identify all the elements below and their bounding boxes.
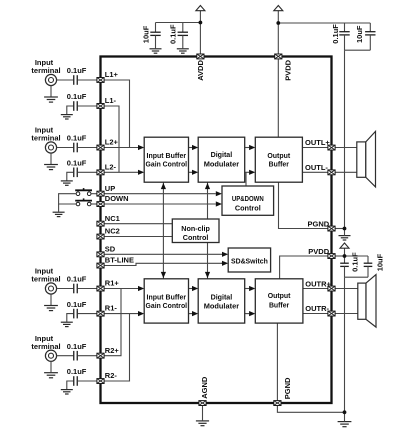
switch DOWN pushbutton (75, 198, 92, 205)
wire NC1 to Non-clip Control (104, 223, 172, 225)
svg-text:Control: Control (235, 203, 261, 212)
wire DOWN to UP&DOWN Control (104, 201, 222, 206)
block SD&Switch (228, 248, 270, 272)
wire L2- to Input Buffer (104, 170, 144, 175)
wire PVDD supply drop (277, 11, 279, 23)
svg-text:0.1uF: 0.1uF (169, 24, 178, 44)
wire cap to R1+ pin (78, 288, 98, 290)
svg-text:0.1uF: 0.1uF (67, 134, 87, 143)
block Input Buffer Gain Control (left ch) (144, 137, 188, 182)
svg-text:10uF: 10uF (375, 253, 384, 271)
svg-text:AVDD: AVDD (196, 60, 205, 81)
ground for L2- cap (61, 181, 73, 185)
pin BT-LINE (97, 263, 104, 268)
wire cap to L2- pin (78, 171, 98, 173)
ground for R1- cap (61, 322, 73, 326)
svg-text:Gain Control: Gain Control (146, 301, 188, 310)
svg-text:PVDD: PVDD (283, 59, 292, 80)
junction dot PVDD right (343, 254, 347, 258)
wire terminal L1 ground stub (50, 86, 52, 97)
junction dot bottom ground (343, 410, 347, 414)
wire UP to UP&DOWN Control (104, 191, 222, 196)
block Output Buffer (left ch) (255, 137, 302, 182)
block Input Buffer Gain Control (right ch) (144, 279, 188, 323)
pin PVDD right (328, 254, 335, 259)
svg-text:terminal: terminal (31, 134, 60, 143)
pin L1+ (97, 78, 104, 83)
wire R Input Buffer to Digital Modulater (-) (188, 311, 198, 316)
svg-text:10uF: 10uF (355, 25, 364, 43)
ground below input terminal R1 (44, 306, 58, 311)
wire right rail lower (caps to bottom ground) (344, 277, 346, 412)
pin PGND right (328, 226, 335, 231)
pin PGND bottom (274, 401, 281, 406)
svg-text:SD&Switch: SD&Switch (231, 256, 268, 265)
wire terminal R2 ground stub (50, 361, 52, 372)
wire inter-channel link 2 (Digital Modulaters) (207, 182, 209, 279)
svg-text:Buffer: Buffer (269, 160, 289, 169)
wire OUTL+ pin to speaker (332, 147, 357, 149)
wire PVDD right pin internal feed (280, 256, 332, 279)
wire PVDD top pin stub (277, 23, 279, 57)
wire cap to L1- pin (78, 105, 98, 107)
pin UP (97, 191, 104, 196)
pin L2- (97, 170, 104, 175)
wire cap to R2+ pin (78, 355, 98, 357)
svg-text:Digital: Digital (211, 150, 233, 159)
wire NC2 to Non-clip Control (104, 236, 172, 238)
svg-text:Gain Control: Gain Control (146, 159, 188, 168)
capacitor 0.1uF R2+ coupling (74, 351, 78, 361)
svg-text:0.1uF: 0.1uF (331, 24, 340, 44)
wire L1+ jog to L2+ line (104, 80, 130, 148)
wire mid-right caps top rail (345, 255, 369, 257)
wire terminal R1 ground stub (50, 294, 52, 305)
svg-text:L2+: L2+ (105, 138, 119, 147)
ground for UP/DOWN switches (53, 212, 65, 216)
svg-text:R1+: R1+ (105, 279, 120, 288)
ground below input terminal L1 (44, 97, 58, 102)
svg-text:0.1uF: 0.1uF (351, 252, 360, 272)
capacitor 0.1uF R1+ coupling (74, 284, 78, 294)
svg-text:Non-clip: Non-clip (181, 224, 210, 233)
wire AVDD supply drop (199, 11, 201, 57)
wire left Output Buffer to PGND right pin (279, 182, 332, 228)
speaker right channel (358, 275, 376, 328)
wire terminal R1 to coupling cap (57, 288, 74, 290)
wire OUTR- box to pin (303, 313, 332, 315)
svg-text:L1-: L1- (105, 96, 117, 105)
svg-text:Modulater: Modulater (204, 301, 239, 310)
input terminal L2 circle (45, 142, 56, 153)
ground under 0.1uF (AVDD) (177, 49, 189, 53)
wire L2- ground stub (67, 172, 73, 180)
wire L1- ground stub (67, 106, 73, 114)
svg-text:0.1uF: 0.1uF (67, 367, 87, 376)
wire OUTL- box to pin (302, 171, 331, 173)
pin OUTR+ (328, 286, 335, 291)
IC outline (101, 57, 332, 404)
svg-text:OUTL-: OUTL- (305, 163, 328, 172)
block Digital Modulater (right ch) (198, 279, 245, 323)
wire AVDD decoupling rail (156, 22, 201, 24)
wire BT-LINE to SD&Switch (104, 263, 223, 265)
block Output Buffer (right ch) (255, 279, 303, 323)
speaker left channel (357, 131, 376, 187)
pin OUTR- (328, 311, 335, 316)
power symbol PVDD right (340, 243, 349, 248)
wire cap to R1- pin (78, 313, 98, 315)
wire terminal L2 ground stub (50, 153, 52, 164)
power symbol AVDD (196, 6, 205, 11)
pin R2- (97, 379, 104, 384)
wire PVDD internal drop to left Output Buffer (277, 57, 279, 138)
pin AVDD (197, 54, 204, 59)
capacitor 0.1uF L2+ coupling (74, 143, 78, 153)
wire R2+ jog to R1+ line (104, 289, 121, 356)
pin R2+ (97, 353, 104, 358)
svg-text:terminal: terminal (31, 275, 60, 284)
svg-text:Output: Output (268, 291, 291, 300)
wire L Digital Modulater to Output Buffer (+) (244, 145, 255, 150)
wire L1- jog to L2- line (104, 106, 119, 172)
pin DOWN (97, 202, 104, 207)
capacitor C-PVDD-right 0.1uF (340, 256, 349, 277)
ground for L1- cap (61, 115, 73, 119)
wire OUTR+ box to pin (303, 288, 332, 290)
wire SD to SD&Switch (104, 252, 228, 257)
pin NC1 (97, 221, 104, 226)
wire PVDD right pin to junction (332, 255, 345, 257)
pin L1- (97, 104, 104, 109)
ground below input terminal R2 (44, 373, 58, 378)
svg-text:Digital: Digital (211, 292, 233, 301)
svg-text:R2+: R2+ (105, 346, 120, 355)
wire cap to R2- pin (78, 380, 98, 382)
capacitor C-PVDD-top 0.1uF (339, 23, 349, 50)
wire L Digital Modulater to Output Buffer (-) (244, 170, 255, 175)
wire switch DOWN to pin (91, 203, 98, 205)
junction dot PVDD top (276, 21, 280, 25)
svg-text:10uF: 10uF (141, 25, 150, 43)
pin PVDD top (275, 54, 282, 59)
svg-text:UP: UP (105, 184, 115, 193)
svg-text:NC1: NC1 (105, 214, 120, 223)
svg-text:0.1uF: 0.1uF (67, 275, 87, 284)
svg-text:Input Buffer: Input Buffer (147, 292, 187, 301)
ground for R2- cap (61, 390, 73, 394)
svg-text:0.1uF: 0.1uF (67, 159, 87, 168)
capacitor C-AVDD 0.1uF (178, 23, 188, 49)
wire signal branch to UP&DOWN Control (245, 172, 247, 186)
svg-text:OUTR-: OUTR- (305, 304, 329, 313)
wire R1- ground stub (67, 314, 73, 322)
svg-text:0.1uF: 0.1uF (67, 92, 87, 101)
svg-text:terminal: terminal (31, 66, 60, 75)
pin R1- (97, 311, 104, 316)
pin R1+ (97, 286, 104, 291)
svg-text:0.1uF: 0.1uF (67, 66, 87, 75)
wire terminal R2 to coupling cap (57, 355, 74, 357)
wire right Output Buffer to PGND bottom pin (276, 323, 278, 403)
wire OUTR- pin to speaker (332, 313, 358, 315)
svg-text:PVDD: PVDD (308, 247, 329, 256)
wire L2+ to Input Buffer (104, 145, 144, 150)
svg-text:BT-LINE: BT-LINE (105, 256, 134, 265)
wire OUTL+ box to pin (302, 147, 331, 149)
capacitor 0.1uF L2- shunt (74, 168, 78, 178)
ground below AGND pin (196, 421, 209, 426)
svg-text:UP&DOWN: UP&DOWN (232, 194, 264, 203)
pin AGND (199, 401, 206, 406)
capacitor C-PVDD-right 10uF (364, 256, 373, 277)
svg-text:Modulater: Modulater (204, 160, 239, 169)
wire switch UP to pin (91, 193, 98, 195)
svg-text:R2-: R2- (105, 371, 118, 380)
capacitor 0.1uF L1- shunt (74, 101, 78, 111)
wire right rail upper (caps to PGND) (344, 50, 346, 228)
svg-text:Control: Control (183, 233, 209, 242)
svg-text:OUTR+: OUTR+ (305, 280, 331, 289)
wire R2- jog to R1- line (104, 314, 130, 381)
ground under 10uF (AVDD) (150, 49, 162, 53)
wire L Input Buffer to Digital Modulater (-) (188, 170, 198, 175)
input terminal L1 circle (45, 74, 56, 85)
wire switches common to ground (59, 194, 77, 204)
svg-text:AGND: AGND (200, 376, 209, 399)
svg-text:0.1uF: 0.1uF (67, 300, 87, 309)
wire R Digital Modulater to Output Buffer (+) (244, 286, 255, 291)
pin OUTL+ (328, 145, 335, 150)
power symbol PVDD top (274, 6, 283, 11)
wire R Input Buffer to Digital Modulater (+) (188, 286, 198, 291)
wire PGND bottom pin to ground junction (277, 403, 344, 412)
pin L2+ (97, 145, 104, 150)
ground at PGND right junction (339, 236, 351, 240)
svg-text:L2-: L2- (105, 162, 117, 171)
junction dot PGND right (343, 227, 347, 231)
block Non-clip Control (172, 219, 219, 243)
wire PVDD decoupling rail top (278, 22, 370, 24)
capacitor C-PVDD-top 10uF (365, 23, 375, 50)
svg-text:DOWN: DOWN (105, 194, 129, 203)
wire R1+ to Input Buffer (104, 286, 144, 291)
ground bottom right (338, 422, 352, 427)
svg-text:OUTL+: OUTL+ (305, 138, 330, 147)
pin SD (97, 252, 104, 257)
capacitor 0.1uF R1- shunt (74, 309, 78, 319)
junction dot AVDD (199, 21, 203, 25)
block UP&DOWN Control (222, 186, 274, 215)
input terminal R2 circle (45, 350, 56, 361)
wire terminal L1 to coupling cap (57, 79, 74, 81)
wire terminal L2 to coupling cap (57, 147, 74, 149)
svg-text:L1+: L1+ (105, 70, 119, 79)
wire L Input Buffer to Digital Modulater (+) (188, 145, 198, 150)
wire PGND pin to junction (332, 228, 345, 230)
wire cap to L1+ pin (78, 79, 98, 81)
ground below input terminal L2 (44, 165, 58, 170)
capacitor 0.1uF R2- shunt (74, 376, 78, 386)
switch UP pushbutton (75, 188, 92, 195)
wire R2- ground stub (67, 381, 73, 389)
wire R1- to Input Buffer (104, 311, 144, 316)
capacitor 0.1uF L1+ coupling (74, 75, 78, 85)
wire inter-channel link 1 (Input Buffers) (162, 182, 164, 279)
pin NC2 (97, 234, 104, 239)
pin OUTL- (328, 170, 335, 175)
input terminal R1 circle (45, 283, 56, 294)
wire OUTR+ pin to speaker (332, 288, 358, 290)
svg-text:PGND: PGND (283, 377, 292, 399)
svg-text:0.1uF: 0.1uF (67, 342, 87, 351)
wire R Digital Modulater to Output Buffer (-) (244, 311, 255, 316)
capacitor C-AVDD 10uF (150, 23, 160, 49)
wire cap to L2+ pin (78, 147, 98, 149)
svg-text:NC2: NC2 (105, 227, 120, 236)
svg-text:Buffer: Buffer (269, 301, 289, 310)
wire top-right caps bottom join (345, 49, 371, 51)
wire right supply arrow stub (344, 248, 346, 256)
block Digital Modulater (left ch) (198, 137, 245, 182)
svg-text:PGND: PGND (308, 219, 330, 228)
svg-text:SD: SD (105, 244, 116, 253)
svg-text:terminal: terminal (31, 342, 60, 351)
wire OUTL- pin to speaker (332, 171, 357, 173)
wire mid-right caps bottom join (345, 276, 369, 278)
svg-text:R1-: R1- (105, 304, 118, 313)
